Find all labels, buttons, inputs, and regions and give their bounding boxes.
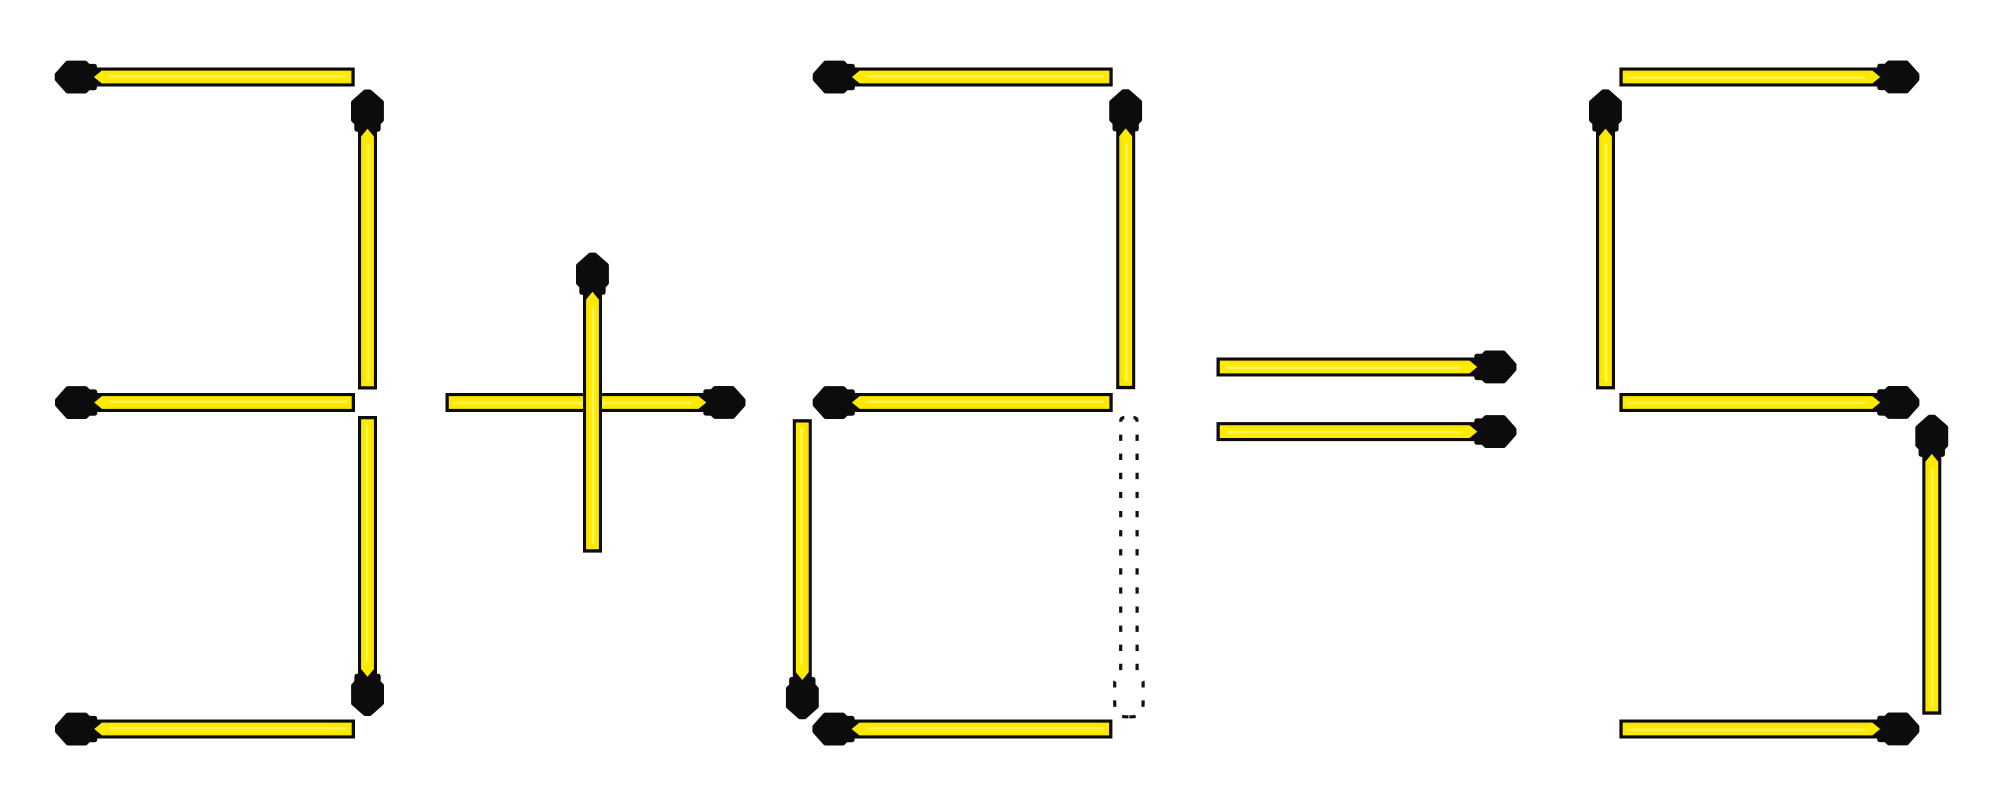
digit 3: top horizontal matchstick bbox=[57, 63, 355, 91]
digit 5: middle horizontal matchstick bbox=[1619, 389, 1917, 417]
digit 3: bottom horizontal matchstick bbox=[58, 715, 356, 743]
digit 3: middle horizontal matchstick bbox=[58, 389, 356, 417]
digit 5: upper-left vertical matchstick bbox=[1592, 92, 1620, 390]
equals sign: bottom horizontal matchstick bbox=[1217, 418, 1515, 446]
digit 2: lower-left vertical matchstick bbox=[788, 419, 816, 717]
plus sign: vertical matchstick bbox=[579, 255, 607, 552]
digit 2: dotted outline of removed matchstick bbox=[1115, 418, 1143, 717]
digit 5: lower-right vertical matchstick bbox=[1918, 417, 1946, 715]
digit 3: lower-right vertical matchstick bbox=[354, 416, 382, 714]
equals sign: top horizontal matchstick bbox=[1217, 353, 1515, 381]
plus sign: horizontal matchstick bbox=[446, 389, 744, 417]
digit 5: bottom horizontal matchstick bbox=[1619, 715, 1917, 743]
digit 2: bottom horizontal matchstick bbox=[815, 715, 1113, 743]
digit 2: top horizontal matchstick bbox=[815, 63, 1112, 91]
digit 2: upper-right vertical matchstick bbox=[1112, 92, 1140, 390]
digit 3: upper-right vertical matchstick bbox=[354, 92, 382, 390]
digit 5: top horizontal matchstick bbox=[1619, 63, 1917, 91]
digit 2: middle horizontal matchstick bbox=[815, 389, 1112, 417]
